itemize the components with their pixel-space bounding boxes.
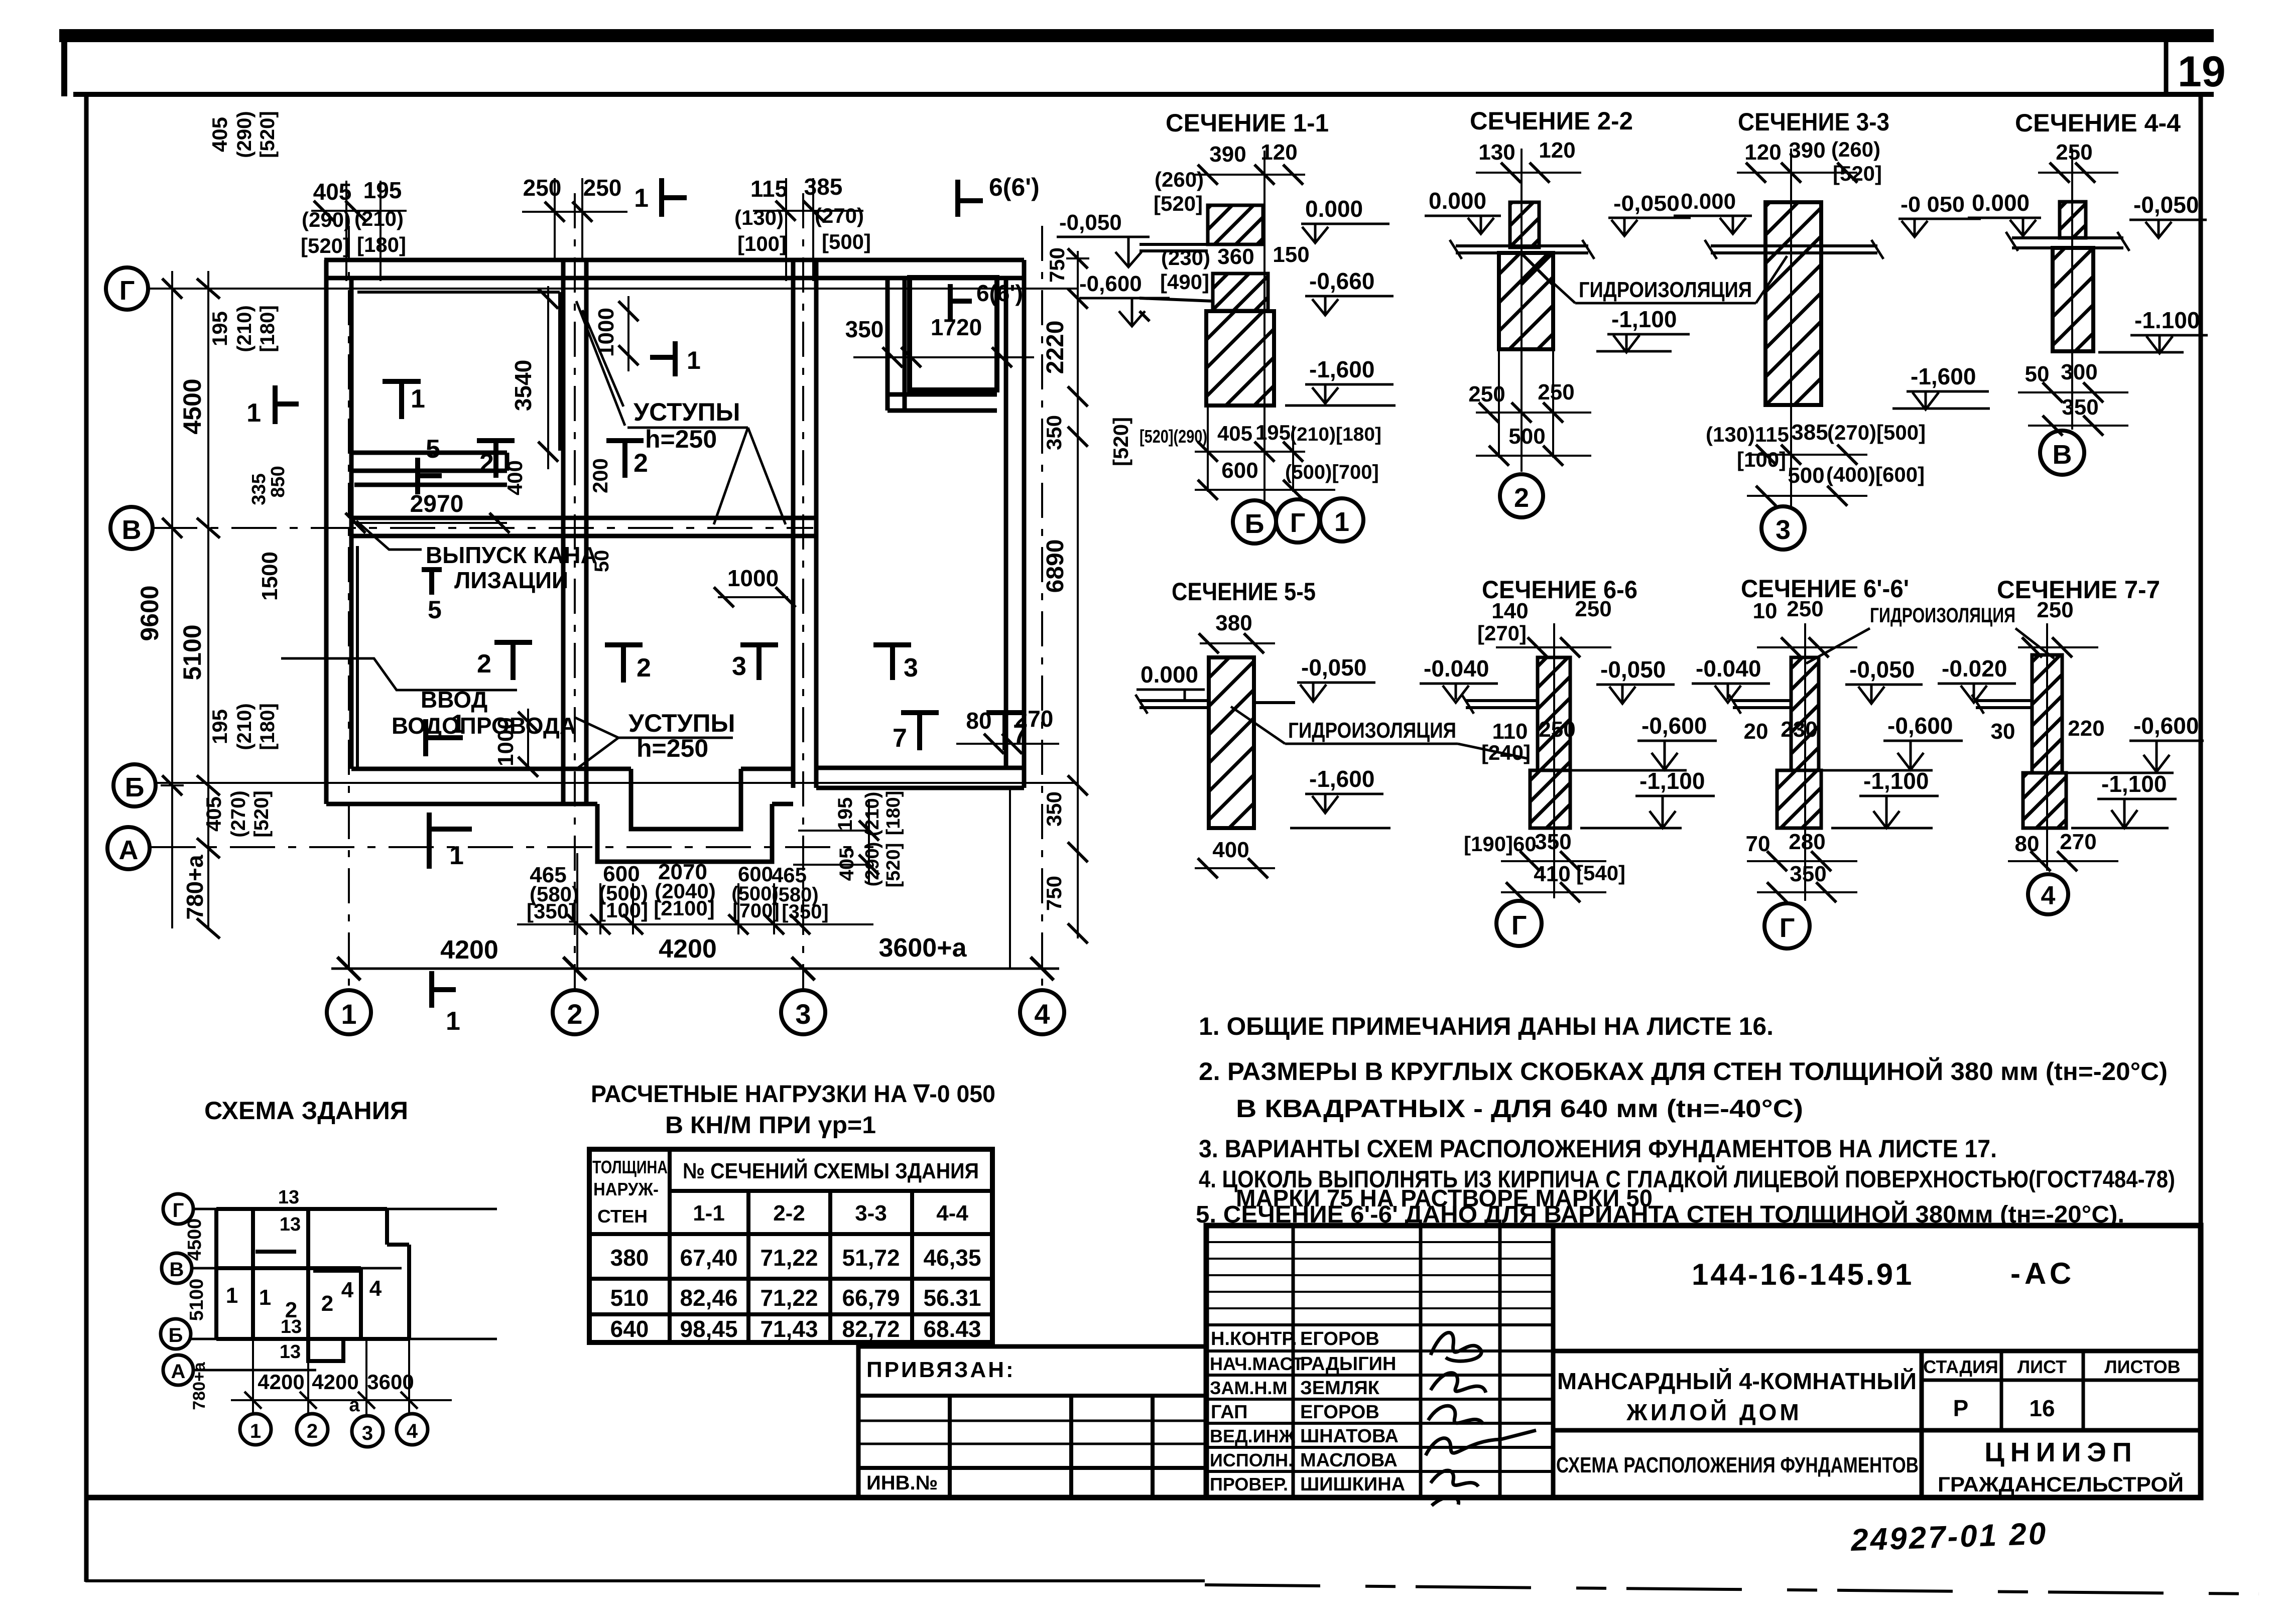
- svg-text:2: 2: [307, 1420, 318, 1442]
- svg-text:0.000: 0.000: [1681, 189, 1736, 214]
- svg-text:350: 350: [845, 316, 884, 342]
- svg-text:(130)115: (130)115: [1706, 423, 1789, 446]
- svg-text:3600+a: 3600+a: [879, 933, 967, 963]
- svg-text:4: 4: [341, 1278, 354, 1302]
- svg-text:140: 140: [1491, 599, 1528, 623]
- section 1-1 ground line left: [1140, 298, 1213, 321]
- svg-text:-0,050: -0,050: [1613, 191, 1680, 216]
- section 6-6 footing hatched: [1530, 770, 1570, 828]
- svg-text:350: 350: [1535, 830, 1571, 854]
- svg-text:-0,600: -0,600: [1641, 713, 1707, 739]
- svg-text:82,46: 82,46: [680, 1285, 737, 1311]
- grid line 4 vertical: [1041, 226, 1043, 990]
- svg-text:2970: 2970: [410, 491, 464, 517]
- svg-text:-0 050: -0 050: [1901, 192, 1965, 217]
- section 2-2 upper wall hatched: [1510, 202, 1539, 247]
- привязан box: [858, 1346, 1206, 1497]
- svg-text:6(6'): 6(6'): [989, 173, 1040, 201]
- grid circle А: [107, 827, 150, 869]
- svg-text:h=250: h=250: [645, 425, 717, 453]
- svg-text:УСТУПЫ: УСТУПЫ: [634, 398, 740, 426]
- left dim line 9600: [161, 271, 220, 938]
- svg-text:3. ВАРИАНТЫ СХЕМ РАСПОЛОЖЕНИЯ: 3. ВАРИАНТЫ СХЕМ РАСПОЛОЖЕНИЯ ФУНДАМЕНТО…: [1199, 1135, 1997, 1163]
- svg-text:В КН/М ПРИ γр=1: В КН/М ПРИ γр=1: [665, 1112, 876, 1139]
- svg-text:0.000: 0.000: [1141, 661, 1198, 688]
- svg-text:ТОЛЩИНА: ТОЛЩИНА: [592, 1157, 668, 1177]
- svg-text:[180]: [180]: [257, 703, 279, 750]
- svg-text:1500: 1500: [258, 552, 282, 601]
- svg-text:71,43: 71,43: [760, 1316, 818, 1342]
- svg-text:120: 120: [1744, 140, 1781, 165]
- section 7-7 floor slab: [1972, 695, 2032, 714]
- svg-text:400: 400: [1212, 838, 1249, 862]
- svg-text:1: 1: [451, 710, 465, 739]
- svg-text:1: 1: [259, 1285, 271, 1310]
- svg-text:[520]: [520]: [257, 111, 279, 158]
- svg-text:6(6'): 6(6'): [976, 280, 1023, 306]
- svg-text:1: 1: [446, 1007, 460, 1036]
- svg-text:[520]: [520]: [301, 234, 350, 257]
- section 6-6 axis circle Г: [1496, 901, 1542, 946]
- svg-text:1720: 1720: [931, 314, 982, 340]
- svg-text:5100: 5100: [186, 1279, 207, 1321]
- svg-text:7: 7: [893, 724, 907, 753]
- svg-text:(290): (290): [233, 111, 256, 158]
- svg-text:[490]: [490]: [1160, 270, 1209, 294]
- svg-text:Г: Г: [173, 1199, 184, 1222]
- svg-text:ГИДРОИЗОЛЯЦИЯ: ГИДРОИЗОЛЯЦИЯ: [1870, 603, 2015, 627]
- svg-text:-1,100: -1,100: [1863, 768, 1929, 794]
- section 1-1 footing hatched: [1206, 311, 1274, 405]
- svg-text:500: 500: [1788, 463, 1824, 488]
- svg-text:[520]: [520]: [250, 790, 273, 837]
- svg-text:-1,600: -1,600: [1309, 766, 1374, 792]
- svg-text:СЕЧЕНИЕ 7-7: СЕЧЕНИЕ 7-7: [1997, 576, 2160, 604]
- svg-text:-0,050: -0,050: [1600, 656, 1666, 683]
- wall on axis 2 right line: [584, 260, 589, 802]
- svg-text:1000: 1000: [594, 308, 618, 357]
- svg-text:4200: 4200: [312, 1370, 358, 1394]
- svg-text:ИСПОЛН.: ИСПОЛН.: [1210, 1450, 1293, 1470]
- svg-text:3600: 3600: [367, 1370, 414, 1394]
- svg-text:1: 1: [411, 384, 425, 414]
- svg-text:[520]: [520]: [1154, 192, 1203, 215]
- svg-text:(400)[600]: (400)[600]: [1826, 463, 1925, 486]
- svg-text:5: 5: [428, 596, 442, 624]
- svg-text:50: 50: [2025, 362, 2050, 386]
- svg-text:510: 510: [610, 1285, 649, 1311]
- svg-text:380: 380: [610, 1245, 649, 1271]
- grid circle Г: [106, 267, 148, 310]
- lower stub wall: [354, 483, 507, 487]
- svg-text:(130): (130): [734, 206, 784, 229]
- section mark 6(6') inside annexe: [950, 284, 972, 321]
- section mark 1 below porch: [429, 813, 472, 869]
- section 2-2 column hatched: [1499, 253, 1553, 349]
- svg-text:3540: 3540: [510, 360, 536, 411]
- svg-text:300: 300: [2061, 360, 2097, 384]
- svg-text:4: 4: [1034, 998, 1050, 1030]
- svg-text:3-3: 3-3: [855, 1201, 887, 1226]
- svg-text:750: 750: [1042, 876, 1066, 911]
- title block outer: [1206, 1226, 2201, 1498]
- svg-text:-0,050: -0,050: [1301, 654, 1366, 681]
- svg-text:ВЫПУСК КАНА: ВЫПУСК КАНА: [426, 542, 597, 568]
- svg-text:200: 200: [588, 458, 612, 493]
- svg-text:Г: Г: [1780, 913, 1795, 943]
- svg-text:[180]: [180]: [257, 305, 279, 352]
- frame left short corner: [61, 30, 67, 96]
- svg-text:0.000: 0.000: [1429, 188, 1486, 214]
- annexe east wall inner: [1004, 278, 1008, 768]
- svg-text:1: 1: [449, 841, 464, 870]
- grid line В horizontal: [152, 527, 813, 529]
- svg-text:250: 250: [1539, 717, 1575, 742]
- svg-text:МАНСАРДНЫЙ 4-КОМНАТНЫЙ: МАНСАРДНЫЙ 4-КОМНАТНЫЙ: [1557, 1368, 1917, 1394]
- svg-text:1000: 1000: [493, 717, 518, 766]
- main bottom dim line 4200 4200 3600+a: [331, 957, 1059, 980]
- loads table grid: [589, 1149, 992, 1342]
- svg-text:[520]: [520]: [883, 843, 904, 888]
- section mark 1 lower left: [426, 719, 463, 756]
- svg-text:В КВАДРАТНЫХ - ДЛЯ 640 мм (tн=: В КВАДРАТНЫХ - ДЛЯ 640 мм (tн=-40°С): [1236, 1095, 1803, 1123]
- svg-text:400: 400: [503, 460, 527, 495]
- frame top inner line: [73, 92, 2214, 97]
- svg-text:А: А: [119, 835, 139, 865]
- svg-text:350: 350: [2062, 395, 2098, 420]
- section 2-2 axis circle 2: [1500, 474, 1543, 517]
- svg-text:4500: 4500: [184, 1219, 205, 1261]
- svg-text:46,35: 46,35: [923, 1245, 981, 1271]
- svg-text:250: 250: [1787, 597, 1823, 621]
- annexe south wall: [816, 766, 1024, 770]
- grid line Б horizontal: [156, 782, 1078, 784]
- svg-text:750: 750: [1045, 247, 1069, 283]
- svg-text:3: 3: [795, 998, 811, 1030]
- svg-text:(230): (230): [1161, 246, 1210, 269]
- svg-text:ШИШКИНА: ШИШКИНА: [1300, 1474, 1405, 1495]
- svg-text:98,45: 98,45: [680, 1316, 737, 1342]
- svg-text:5: 5: [426, 435, 440, 464]
- svg-text:(210)[180]: (210)[180]: [1290, 424, 1381, 445]
- svg-text:195: 195: [834, 797, 856, 831]
- svg-text:[540]: [540]: [1576, 861, 1625, 885]
- svg-text:В: В: [2053, 440, 2072, 470]
- svg-text:120: 120: [1539, 138, 1575, 163]
- south wall inner line: [351, 767, 631, 771]
- svg-text:120: 120: [1260, 140, 1297, 165]
- svg-text:66,79: 66,79: [842, 1285, 900, 1311]
- wall on axis 2 left line: [561, 260, 566, 802]
- svg-text:500: 500: [1508, 424, 1545, 449]
- svg-text:4: 4: [407, 1420, 418, 1442]
- svg-text:250: 250: [1575, 597, 1611, 621]
- svg-text:13: 13: [280, 1341, 301, 1363]
- grid line А horizontal: [151, 846, 873, 848]
- svg-text:[190]60: [190]60: [1464, 832, 1537, 856]
- west wall outer: [324, 260, 329, 804]
- section 4-4 column hatched: [2053, 248, 2093, 351]
- svg-text:НАЧ.МАСТ: НАЧ.МАСТ: [1210, 1354, 1304, 1374]
- svg-text:10: 10: [1753, 599, 1778, 623]
- svg-text:-0,600: -0,600: [1887, 713, 1953, 739]
- svg-text:3: 3: [1776, 515, 1791, 545]
- svg-text:СТЕН: СТЕН: [597, 1206, 648, 1227]
- svg-text:380: 380: [1215, 611, 1252, 635]
- svg-text:20: 20: [1744, 719, 1768, 744]
- annexe east wall outer: [1022, 260, 1027, 788]
- svg-text:Г: Г: [1511, 910, 1527, 940]
- section 4-4 axis circle В: [2040, 431, 2084, 475]
- svg-text:1: 1: [341, 998, 356, 1030]
- svg-text:ЦНИИЭП: ЦНИИЭП: [1984, 1437, 2137, 1467]
- svg-text:1: 1: [246, 398, 261, 428]
- svg-text:(270): (270): [815, 204, 864, 227]
- svg-text:2: 2: [321, 1291, 333, 1316]
- svg-text:13: 13: [280, 1214, 301, 1235]
- svg-text:71,22: 71,22: [760, 1285, 818, 1311]
- section 1-1 mid wall hatched: [1213, 274, 1268, 311]
- svg-text:-0,660: -0,660: [1309, 268, 1374, 294]
- svg-text:640: 640: [610, 1316, 649, 1342]
- svg-text:360: 360: [1217, 244, 1254, 269]
- page number box divider: [2164, 40, 2169, 95]
- svg-text:270: 270: [2060, 830, 2096, 854]
- svg-text:[520]: [520]: [1109, 417, 1132, 466]
- svg-text:1: 1: [687, 346, 701, 374]
- section mark 1 bottom outside: [432, 971, 456, 1008]
- wall on axis 3 left line: [791, 260, 796, 788]
- svg-text:405: 405: [202, 796, 225, 832]
- svg-text:СЕЧЕНИЕ 5-5: СЕЧЕНИЕ 5-5: [1172, 578, 1316, 606]
- svg-text:-0.040: -0.040: [1696, 655, 1761, 682]
- svg-text:410: 410: [1534, 862, 1570, 886]
- svg-text:24927-01 20: 24927-01 20: [1850, 1516, 2048, 1558]
- scheme grid circles left: [163, 1194, 193, 1224]
- svg-text:3: 3: [904, 653, 918, 683]
- svg-text:[520](290): [520](290): [1140, 426, 1207, 447]
- svg-text:ПРИВЯЗАН:: ПРИВЯЗАН:: [866, 1358, 1016, 1382]
- svg-text:(260): (260): [1831, 138, 1880, 161]
- svg-text:4200: 4200: [440, 935, 498, 965]
- section 1-1 floor slab left: [1140, 244, 1208, 251]
- svg-text:ЗЕМЛЯК: ЗЕМЛЯК: [1300, 1378, 1380, 1399]
- top-left room bottom wall: [351, 451, 507, 455]
- svg-text:ЖИЛОЙ ДОМ: ЖИЛОЙ ДОМ: [1626, 1399, 1802, 1425]
- lower-left room inner face line: [356, 546, 359, 767]
- svg-text:1: 1: [226, 1283, 238, 1308]
- scheme bottom dim line: [231, 1339, 452, 1416]
- wall on axis 3 right line: [814, 260, 819, 788]
- svg-text:405: 405: [208, 117, 231, 152]
- svg-text:-0.020: -0.020: [1942, 655, 2007, 682]
- section 4-4 upper wall hatched: [2060, 202, 2086, 238]
- svg-text:ГРАЖДАНСЕЛЬСТРОЙ: ГРАЖДАНСЕЛЬСТРОЙ: [1938, 1472, 2184, 1496]
- sheet frame top bar: [59, 29, 2214, 42]
- top-left room inner face lines: [357, 291, 560, 294]
- section 3-3 floor slab: [1705, 240, 1883, 259]
- svg-text:А: А: [171, 1361, 186, 1383]
- svg-text:НАРУЖ-: НАРУЖ-: [593, 1179, 659, 1199]
- svg-text:-0,600: -0,600: [1079, 272, 1142, 296]
- north wall inner: [324, 276, 1024, 281]
- svg-text:ГАП: ГАП: [1211, 1402, 1247, 1423]
- svg-text:(270): (270): [227, 790, 249, 837]
- section marks 7 7: [901, 713, 939, 750]
- svg-text:220: 220: [2068, 716, 2104, 741]
- svg-text:1: 1: [634, 184, 649, 213]
- svg-text:2: 2: [567, 998, 582, 1030]
- section 1-1 axis circles Б Г 1: [1233, 500, 1276, 544]
- svg-text:2: 2: [634, 449, 648, 478]
- svg-text:280: 280: [1789, 830, 1825, 854]
- svg-text:195: 195: [208, 311, 231, 346]
- svg-text:390: 390: [1789, 138, 1825, 163]
- svg-text:[270]: [270]: [1477, 621, 1527, 645]
- section 3-3 axis circle 3: [1761, 506, 1805, 550]
- svg-text:(500)[700]: (500)[700]: [1285, 461, 1379, 483]
- section 7-7 wall column hatched: [2032, 655, 2062, 773]
- annexe closet outer rect: [910, 278, 997, 390]
- svg-text:250: 250: [2056, 140, 2092, 165]
- svg-text:ВЕД.ИНЖ: ВЕД.ИНЖ: [1210, 1426, 1296, 1446]
- svg-text:ВОДОПРОВОДА: ВОДОПРОВОДА: [392, 713, 576, 739]
- svg-text:[100]: [100]: [599, 898, 648, 922]
- svg-text:-1,600: -1,600: [1309, 356, 1374, 382]
- section 4-4 floor slab: [2006, 232, 2129, 251]
- svg-text:80: 80: [2015, 832, 2040, 856]
- svg-text:ЕГОРОВ: ЕГОРОВ: [1300, 1328, 1379, 1349]
- svg-text:13: 13: [281, 1316, 302, 1337]
- section 5-5 wall column hatched: [1209, 657, 1254, 828]
- svg-text:-1,600: -1,600: [1911, 363, 1976, 389]
- svg-text:ЗАМ.Н.М: ЗАМ.Н.М: [1210, 1378, 1288, 1398]
- section 6'-6' axis circle Г: [1764, 903, 1810, 949]
- svg-text:Б: Б: [125, 772, 145, 802]
- section 5-5 floor slab: [1135, 695, 1295, 714]
- svg-text:4: 4: [2041, 881, 2056, 910]
- svg-text:-1,100: -1,100: [1639, 768, 1705, 794]
- svg-text:ПРОВЕР.: ПРОВЕР.: [1210, 1474, 1288, 1495]
- svg-text:СЕЧЕНИЕ 3-3: СЕЧЕНИЕ 3-3: [1738, 108, 1889, 136]
- svg-text:Р: Р: [1953, 1395, 1969, 1421]
- svg-text:4: 4: [369, 1276, 382, 1301]
- section mark 1 top: [662, 178, 687, 217]
- porch outer outline: [597, 804, 772, 862]
- svg-text:-0,050: -0,050: [2133, 192, 2199, 218]
- section 7-7 footing hatched: [2023, 773, 2066, 828]
- svg-text:В: В: [170, 1259, 184, 1281]
- svg-text:СХЕМА ЗДАНИЯ: СХЕМА ЗДАНИЯ: [204, 1097, 408, 1125]
- grid line 2 vertical: [574, 193, 576, 990]
- grid circle 1 bottom: [327, 990, 371, 1034]
- section 6'-6' floor slab: [1729, 695, 1791, 714]
- svg-text:1-1: 1-1: [693, 1201, 725, 1226]
- svg-text:82,72: 82,72: [842, 1316, 900, 1342]
- svg-text:[350]: [350]: [782, 901, 828, 923]
- section 2-2 waterproofing X mark: [1521, 253, 1553, 285]
- svg-text:ЕГОРОВ: ЕГОРОВ: [1300, 1402, 1379, 1423]
- svg-text:СТАДИЯ: СТАДИЯ: [1923, 1357, 1998, 1377]
- svg-text:130: 130: [1478, 140, 1515, 165]
- svg-text:(270)[500]: (270)[500]: [1827, 421, 1926, 444]
- svg-text:110: 110: [1492, 719, 1528, 744]
- scheme bottom circles: [240, 1414, 271, 1445]
- svg-text:[2100]: [2100]: [654, 896, 714, 920]
- annexe closet bottom wall: [888, 392, 997, 397]
- svg-text:Г: Г: [1290, 508, 1306, 538]
- grid line 3 vertical: [802, 193, 804, 990]
- svg-text:-1,100: -1,100: [1611, 306, 1677, 332]
- svg-text:СЕЧЕНИЕ 4-4: СЕЧЕНИЕ 4-4: [2015, 109, 2181, 137]
- svg-text:-1,100: -1,100: [2101, 771, 2167, 797]
- svg-text:[350]: [350]: [527, 899, 576, 923]
- svg-text:ГИДРОИЗОЛЯЦИЯ: ГИДРОИЗОЛЯЦИЯ: [1579, 278, 1752, 302]
- svg-text:51,72: 51,72: [842, 1245, 900, 1271]
- grid circle В: [110, 507, 153, 549]
- svg-text:Н.КОНТР.: Н.КОНТР.: [1211, 1328, 1297, 1349]
- svg-text:0.000: 0.000: [1972, 190, 2030, 216]
- grid circle 3 bottom: [781, 990, 825, 1034]
- svg-text:[500]: [500]: [822, 230, 871, 253]
- right dim line: [1066, 248, 1089, 943]
- svg-text:4200: 4200: [659, 934, 717, 964]
- section mark 5 below В: [422, 570, 442, 595]
- svg-text:115: 115: [750, 176, 788, 202]
- wall on axis В: [351, 516, 814, 520]
- svg-text:№ СЕЧЕНИЙ СХЕМЫ ЗДАНИЯ: № СЕЧЕНИЙ СХЕМЫ ЗДАНИЯ: [683, 1158, 979, 1183]
- svg-text:(260): (260): [1155, 168, 1204, 191]
- svg-text:Г: Г: [119, 276, 135, 306]
- svg-text:5100: 5100: [178, 624, 206, 680]
- svg-text:67,40: 67,40: [680, 1245, 737, 1271]
- svg-text:19: 19: [2178, 48, 2226, 96]
- section 6-6 floor slab: [1462, 695, 1538, 714]
- grid line 1 vertical: [348, 226, 350, 990]
- svg-text:71,22: 71,22: [760, 1245, 818, 1271]
- section 1-1 upper wall hatched: [1208, 205, 1263, 244]
- svg-text:МАСЛОВА: МАСЛОВА: [1300, 1450, 1398, 1471]
- svg-text:195: 195: [208, 709, 231, 744]
- svg-text:56.31: 56.31: [923, 1285, 981, 1311]
- svg-text:ЛИЗАЦИИ: ЛИЗАЦИИ: [454, 567, 568, 593]
- svg-text:68.43: 68.43: [923, 1316, 981, 1342]
- porch inner notch: [631, 769, 741, 829]
- section 6'-6' footing hatched: [1777, 770, 1821, 828]
- svg-text:30: 30: [1991, 719, 2015, 744]
- svg-text:В: В: [122, 515, 142, 545]
- section 2-2 floor slab: [1450, 240, 1594, 259]
- sheet bottom edge dashes: [1205, 1585, 2259, 1594]
- west wall inner: [349, 278, 354, 769]
- svg-text:2: 2: [479, 449, 494, 478]
- svg-text:[240]: [240]: [1481, 741, 1531, 764]
- svg-text:1000: 1000: [727, 565, 779, 591]
- svg-text:(210): (210): [233, 305, 256, 352]
- section mark 1 in plan (upper): [650, 341, 675, 376]
- svg-text:230: 230: [1781, 717, 1817, 742]
- svg-text:ШНАТОВА: ШНАТОВА: [1300, 1426, 1399, 1447]
- svg-text:РАСЧЕТНЫЕ НАГРУЗКИ НА ∇-0 050: РАСЧЕТНЫЕ НАГРУЗКИ НА ∇-0 050: [591, 1081, 995, 1108]
- svg-text:2: 2: [1514, 483, 1529, 513]
- section 3-3 wall column hatched: [1765, 202, 1821, 405]
- section 6-6 wall column hatched: [1538, 657, 1570, 770]
- section marks row under В: 2 2 3 3: [494, 642, 532, 680]
- svg-text:350: 350: [1042, 415, 1066, 450]
- section marks upper row: 1 T1 5 2 2: [275, 385, 299, 424]
- svg-text:СЕЧЕНИЕ 1-1: СЕЧЕНИЕ 1-1: [1166, 109, 1329, 137]
- svg-text:СХЕМА РАСПОЛОЖЕНИЯ ФУНДАМЕНТОВ: СХЕМА РАСПОЛОЖЕНИЯ ФУНДАМЕНТОВ: [1556, 1453, 1919, 1477]
